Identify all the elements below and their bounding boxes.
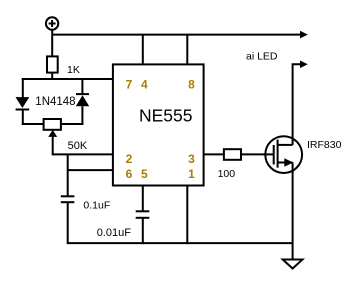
- wire source down to ground: [292, 163, 294, 260]
- ground rail wire: [68, 242, 293, 244]
- ground symbol: [283, 260, 303, 269]
- svg-text:5: 5: [141, 167, 148, 181]
- svg-text:0.1uF: 0.1uF: [83, 199, 110, 211]
- wire top rail: [52, 34, 301, 36]
- wire to pin 6: [68, 169, 113, 171]
- wire C1 bottom to ground rail: [67, 202, 69, 244]
- svg-text:0.01uF: 0.01uF: [97, 227, 132, 239]
- svg-text:1N4148: 1N4148: [35, 96, 75, 108]
- svg-text:100: 100: [218, 168, 236, 180]
- diode D2 1N4148 (cathode up): [76, 94, 89, 106]
- svg-text:NE555: NE555: [139, 106, 193, 126]
- wire D2 to bottom link: [81, 106, 83, 125]
- wire drain up to LED arrow: [293, 64, 301, 145]
- svg-text:2: 2: [126, 152, 133, 166]
- transistor Q1 IRF830: [263, 136, 302, 173]
- node A wire to pin 7: [22, 78, 113, 80]
- svg-text:4: 4: [141, 78, 148, 92]
- wire pin 3 to R3: [204, 153, 224, 155]
- potentiometer R2 50K body: [44, 119, 61, 130]
- wire pin 8 to rail: [186, 35, 188, 65]
- wire bottom link pot to right: [61, 123, 84, 125]
- wire wiper to pin 2: [53, 153, 113, 155]
- wire R3 to gate: [241, 153, 274, 155]
- wire D1 to bottom link: [22, 110, 24, 126]
- svg-text:IRF830: IRF830: [307, 139, 342, 151]
- drain arrowhead to LED: [300, 61, 308, 69]
- wire power to rail and R1 top: [51, 30, 53, 57]
- potentiometer wiper arrow: [48, 130, 57, 156]
- diode D1 1N4148 (cathode down): [16, 97, 30, 109]
- wire pin 1 to ground rail: [186, 186, 188, 245]
- wire bottom link left to pot: [22, 123, 44, 125]
- resistor R3 100: [224, 149, 241, 160]
- top rail arrowhead to LED: [300, 31, 308, 39]
- svg-text:8: 8: [188, 78, 195, 92]
- resistor R1 1K: [47, 56, 58, 72]
- svg-text:50K: 50K: [68, 140, 88, 152]
- capacitor C2 0.01uF: [136, 211, 150, 218]
- svg-text:ai LED: ai LED: [246, 50, 278, 62]
- wire junction down to C1: [67, 154, 69, 196]
- svg-text:7: 7: [126, 78, 133, 92]
- wire pin 4 to rail: [142, 35, 144, 65]
- svg-text:3: 3: [188, 152, 195, 166]
- svg-text:1K: 1K: [67, 64, 80, 76]
- wire R1 bottom to node A: [51, 73, 53, 79]
- capacitor C1 0.1uF: [61, 196, 75, 202]
- svg-text:1: 1: [188, 167, 195, 181]
- power +V symbol: [46, 17, 58, 29]
- IC U1 NE555 box: [113, 64, 204, 185]
- svg-text:6: 6: [126, 167, 133, 181]
- wire C2 bottom to ground rail: [142, 218, 144, 244]
- wire node A down to D1: [22, 78, 24, 98]
- wire node A down to D2: [81, 78, 83, 94]
- wire pin 5 to C2: [142, 186, 144, 212]
